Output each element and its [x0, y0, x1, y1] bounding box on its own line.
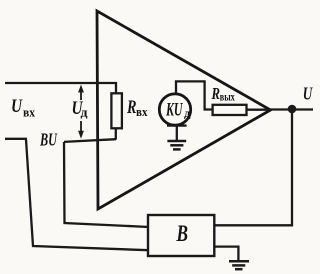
dependent source KUд circle [159, 94, 190, 125]
ground (KUд) [167, 141, 186, 149]
arrow Uд down [80, 121, 82, 133]
svg-text:вх: вх [136, 105, 148, 119]
svg-text:U: U [11, 96, 23, 117]
svg-text:д: д [81, 106, 89, 120]
svg-text:д: д [184, 106, 191, 120]
svg-text:В: В [176, 221, 188, 246]
ground (B) [229, 261, 249, 269]
svg-text:KU: KU [165, 100, 183, 121]
wire: top input (to Rвх top) [5, 83, 116, 94]
wire: KUд top to Rвых [176, 81, 213, 109]
wire: KUд bottom to ground [176, 126, 178, 141]
circle bottom bar [167, 124, 187, 126]
wire: Rвх bottom lead [115, 128, 117, 139]
resistor Rвых [213, 105, 247, 115]
wire: feedback from output node to B [214, 110, 292, 226]
wire: inner drop to B (upper) [64, 142, 149, 227]
op-amp triangle [97, 11, 271, 209]
feedback block B [148, 215, 214, 256]
arrow Uд up [80, 89, 82, 100]
svg-text:ВU: ВU [39, 130, 57, 150]
svg-text:R: R [211, 84, 220, 103]
svg-text:U: U [303, 84, 313, 104]
resistor Rвх [111, 93, 122, 128]
wire: Rвых to apex [247, 109, 271, 111]
wire: lower input right segment [64, 139, 116, 142]
wire: left outer drop to B (lower) [26, 140, 149, 251]
svg-text:R: R [126, 97, 136, 118]
node: output dot [288, 105, 297, 114]
svg-text:вых: вых [220, 92, 235, 104]
wire: output [271, 108, 314, 110]
wire: B to ground [214, 247, 238, 261]
svg-text:вх: вх [23, 106, 36, 120]
wire: lower input left segment [5, 138, 27, 140]
